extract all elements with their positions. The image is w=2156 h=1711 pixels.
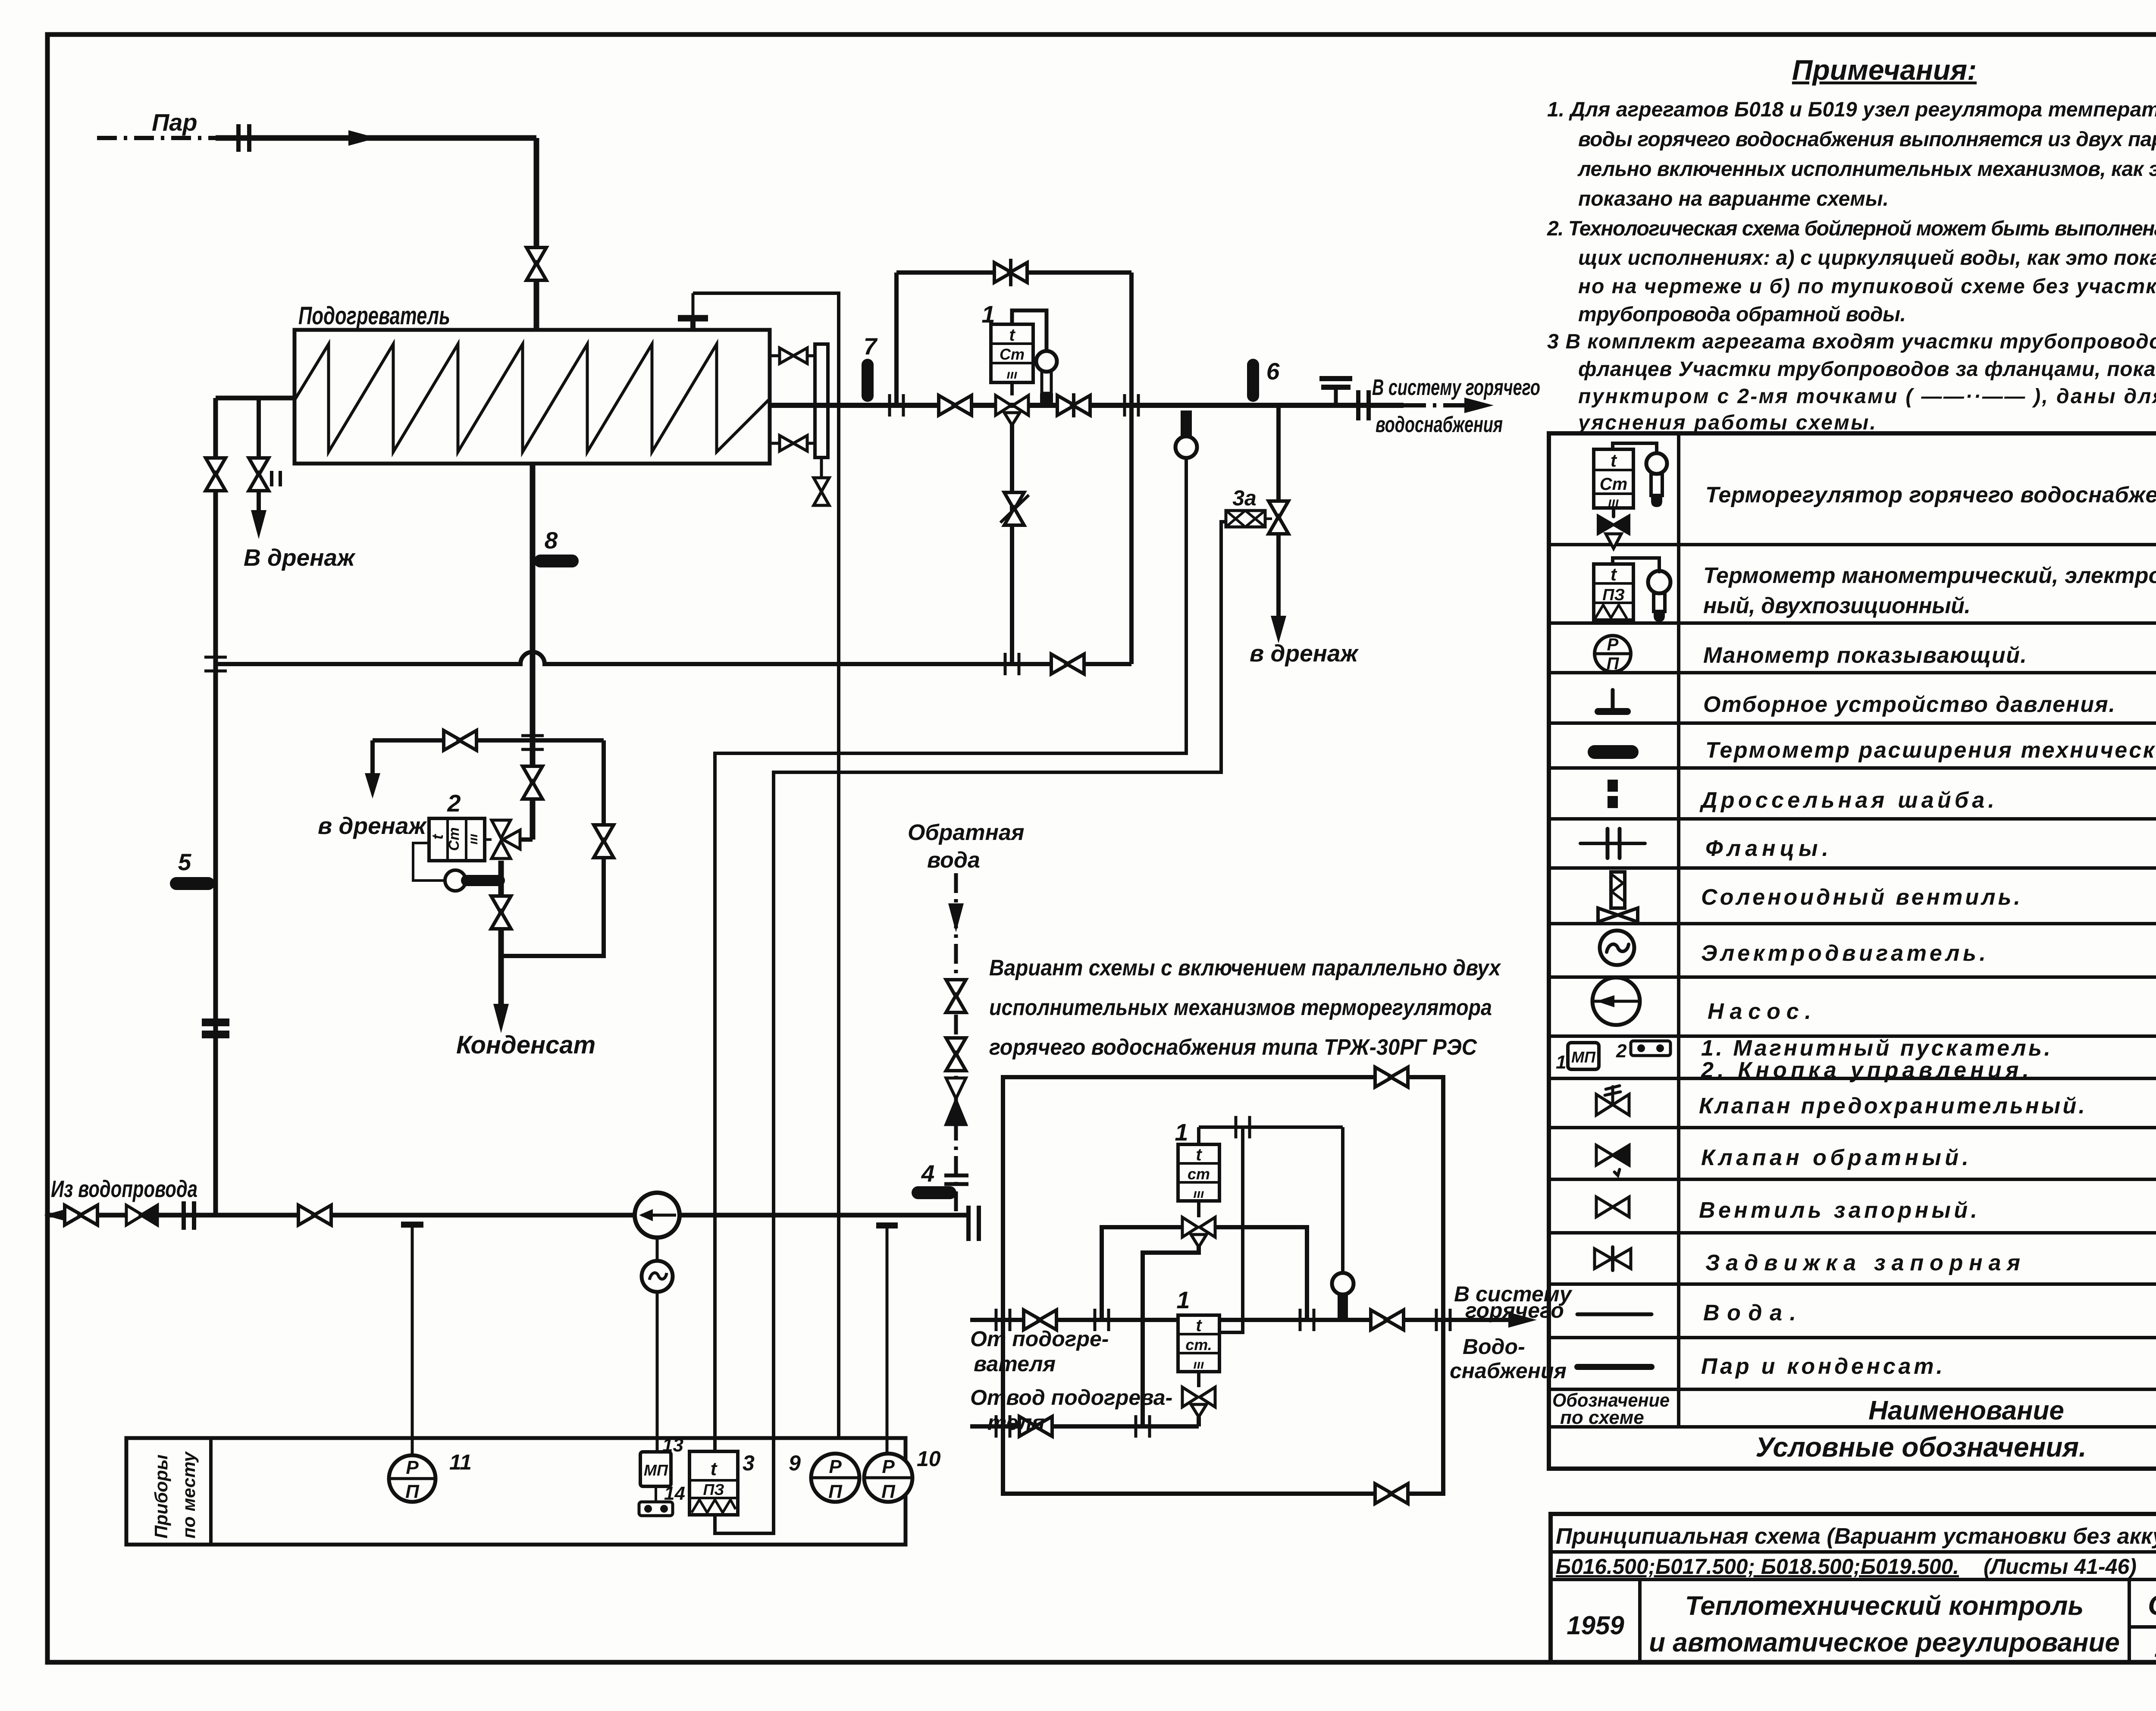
bottom cold water line bbox=[46, 1213, 970, 1218]
condensate elbow to regulating valve bbox=[519, 837, 533, 842]
svg-text:3а: 3а bbox=[1232, 486, 1257, 510]
svg-text:Клапан обратный.: Клапан обратный. bbox=[1701, 1145, 1968, 1170]
svg-text:вода: вода bbox=[927, 848, 980, 873]
svg-text:ный, двухпозиционный.: ный, двухпозиционный. bbox=[1703, 593, 1971, 618]
legend sym row1: thermoregulator bbox=[1594, 443, 1667, 548]
variant inflow pipe bbox=[970, 1318, 1509, 1322]
regulator 1 three-way valve bbox=[996, 395, 1028, 425]
bypass left leg bbox=[894, 273, 899, 405]
svg-text:(Листы 41-46): (Листы 41-46) bbox=[1984, 1554, 2137, 1579]
svg-text:t: t bbox=[1196, 1145, 1202, 1164]
svg-text:1: 1 bbox=[981, 301, 995, 328]
steam supply dash-dot pipe bbox=[97, 136, 216, 140]
svg-text:теля: теля bbox=[987, 1410, 1045, 1435]
drain arrow bbox=[1271, 616, 1286, 643]
svg-text:ııı: ııı bbox=[1006, 367, 1017, 382]
capillary to instrument 3 bbox=[715, 458, 1186, 1451]
thermometer instrument 3 bbox=[689, 1451, 755, 1515]
svg-text:t: t bbox=[1611, 564, 1617, 584]
legend sym row2: manometric thermometer bbox=[1594, 558, 1670, 622]
svg-text:4: 4 bbox=[921, 1160, 935, 1187]
svg-text:горячего: горячего bbox=[1465, 1298, 1564, 1322]
svg-text:1: 1 bbox=[1556, 1052, 1566, 1073]
bottom line end flange bbox=[968, 1206, 979, 1241]
svg-text:П: П bbox=[405, 1481, 420, 1502]
water inlet arrow bbox=[44, 1207, 72, 1223]
condensate flanges at branch bbox=[521, 736, 544, 749]
svg-text:Вентиль запорный.: Вентиль запорный. bbox=[1699, 1198, 1977, 1223]
svg-text:14: 14 bbox=[664, 1483, 685, 1504]
steam downpipe bbox=[534, 138, 539, 330]
svg-text:Вода.: Вода. bbox=[1703, 1300, 1796, 1326]
legend row lines bbox=[1549, 545, 2156, 1427]
instrument panel box bbox=[126, 1438, 906, 1545]
legend sym row14: shut-off valve bbox=[1596, 1197, 1629, 1217]
steam pipe flange bbox=[238, 124, 249, 152]
return water riser dash-dot bbox=[954, 873, 958, 1215]
svg-text:горячего водоснабжения типа ТР: горячего водоснабжения типа ТРЖ-30РГ РЭС bbox=[989, 1035, 1477, 1060]
svg-text:Термометр расширения техниче: Термометр расширения технический. bbox=[1705, 738, 2156, 763]
notes text block bbox=[1547, 98, 2156, 434]
svg-text:ПЗ: ПЗ bbox=[1602, 586, 1625, 604]
lower three-way valve bbox=[1182, 1387, 1215, 1417]
condensate bypass right leg bbox=[501, 740, 604, 956]
heater bypass pipe bbox=[970, 1424, 1199, 1429]
bypass right leg bbox=[1129, 273, 1134, 664]
svg-text:Р: Р bbox=[882, 1456, 895, 1477]
mixing tee ticks bbox=[1005, 653, 1019, 675]
svg-text:10: 10 bbox=[917, 1447, 941, 1471]
riser to three-way valve bbox=[1010, 424, 1014, 664]
heater inlet pipe bbox=[216, 396, 295, 401]
legend sym row13: check valve bbox=[1596, 1145, 1629, 1175]
heater drain branch bbox=[257, 398, 261, 458]
condensate valve above regulator bbox=[523, 766, 542, 799]
svg-text:ст.: ст. bbox=[1185, 1336, 1212, 1354]
svg-text:Терморегулятор горячего водосн: Терморегулятор горячего водоснабжения. bbox=[1705, 483, 2156, 508]
condensate outlet valve bbox=[491, 896, 511, 929]
svg-text:Обратная: Обратная bbox=[908, 820, 1025, 845]
hot water outlet dash-dot arrow bbox=[1404, 403, 1466, 407]
orifice plate bbox=[202, 1018, 229, 1038]
capillary from 3a to instrument 3 bbox=[715, 522, 1226, 1533]
svg-text:t: t bbox=[1196, 1316, 1202, 1335]
svg-text:Термометр манометрический, эл: Термометр манометрический, электроконтак… bbox=[1703, 563, 2156, 588]
regulator 2 box bbox=[429, 818, 492, 861]
svg-text:Подогреватель: Подогреватель bbox=[298, 302, 450, 330]
svg-text:Теплотехнический контроль: Теплотехнический контроль bbox=[1685, 1591, 2084, 1621]
drain branch pipe bbox=[373, 738, 604, 743]
return riser valve 2 bbox=[946, 1038, 966, 1071]
cold line valve bbox=[1051, 654, 1084, 674]
svg-text:МП: МП bbox=[644, 1461, 668, 1479]
svg-text:Задвижка запорная: Задвижка запорная bbox=[1705, 1250, 2020, 1275]
legend sym row3: manometer bbox=[1595, 635, 1631, 673]
condensate arrow bbox=[493, 1004, 509, 1033]
svg-text:Вариант схемы с включением пар: Вариант схемы с включением параллельно д… bbox=[989, 956, 1501, 981]
regulator 1 bulb bbox=[1036, 351, 1057, 372]
svg-text:8: 8 bbox=[545, 527, 558, 554]
svg-text:Из водопровода: Из водопровода bbox=[51, 1175, 197, 1202]
svg-text:ııı: ııı bbox=[1193, 1187, 1204, 1201]
upper valve outlet pipe bbox=[1215, 1227, 1307, 1320]
manometer 11 bbox=[389, 1450, 472, 1502]
svg-text:и автоматическое регулирование: и автоматическое регулирование bbox=[1649, 1628, 2120, 1658]
svg-text:щих исполнениях: а) с циркуля: щих исполнениях: а) с циркуляцией воды, … bbox=[1578, 247, 2156, 269]
heater coil bbox=[295, 344, 770, 452]
svg-text:Приборы: Приборы bbox=[151, 1454, 171, 1539]
svg-text:Отвод подогрева-: Отвод подогрева- bbox=[970, 1385, 1172, 1410]
steam flow arrow bbox=[348, 130, 377, 146]
regulator 2 capillary and bulb bbox=[413, 843, 445, 881]
svg-text:2. Технологическая схема бойле: 2. Технологическая схема бойлерной может… bbox=[1547, 217, 2156, 240]
svg-text:1. Для агрегатов Б018 и Б019: 1. Для агрегатов Б018 и Б019 узел регуля… bbox=[1547, 98, 2156, 121]
legend table bbox=[1549, 433, 2156, 1469]
svg-text:в дренаж: в дренаж bbox=[318, 812, 427, 839]
svg-text:ОВ-03-31: ОВ-03-31 bbox=[2148, 1589, 2156, 1621]
svg-text:П: П bbox=[828, 1481, 843, 1502]
svg-text:3 В комплект агрегата входят: 3 В комплект агрегата входят участки тру… bbox=[1547, 330, 2156, 353]
heater pressure tap bbox=[678, 293, 708, 330]
svg-text:5: 5 bbox=[178, 849, 192, 875]
variant tee ticks bbox=[1095, 1309, 1109, 1331]
upper regulator top link bbox=[1197, 1127, 1200, 1144]
svg-text:2: 2 bbox=[447, 790, 461, 817]
regulator 1 bulb link bbox=[1012, 310, 1047, 350]
magnetic starter 13 bbox=[640, 1435, 683, 1486]
condensate bypass valve bbox=[594, 825, 614, 858]
svg-text:Конденсат: Конденсат bbox=[456, 1031, 595, 1059]
svg-text:Условные обозначения.: Условные обозначения. bbox=[1755, 1432, 2087, 1463]
variant capillary top line bbox=[1199, 1125, 1343, 1129]
bypass crossing ticks bbox=[1125, 394, 1138, 417]
variant bulb drop bbox=[1341, 1127, 1344, 1273]
svg-text:лельно включенных исполнитель: лельно включенных исполнительных механиз… bbox=[1577, 158, 2156, 181]
cold water riser bbox=[213, 398, 218, 1215]
inlet check valve bbox=[126, 1205, 157, 1225]
svg-text:трубопровода обратной воды.: трубопровода обратной воды. bbox=[1578, 303, 1906, 326]
lower box to top line leg bbox=[1219, 1127, 1243, 1332]
manometer 10 bbox=[864, 1447, 941, 1502]
variant outlet arrow bbox=[1508, 1312, 1537, 1328]
thermometer 6 bbox=[1247, 359, 1259, 402]
legend sym row12: safety valve bbox=[1596, 1086, 1629, 1115]
bypass top pipe bbox=[896, 270, 1131, 275]
variant circulation loop bbox=[1003, 1077, 1443, 1494]
return riser valve 1 bbox=[946, 980, 966, 1012]
condensate pipe from heater bbox=[530, 464, 536, 840]
svg-text:уяснения работы схемы.: уяснения работы схемы. bbox=[1577, 411, 1876, 434]
svg-text:9: 9 bbox=[789, 1451, 801, 1475]
svg-text:Клапан предохранительный.: Клапан предохранительный. bbox=[1699, 1094, 2085, 1119]
svg-text:Принципиальная схема (Вариант: Принципиальная схема (Вариант установки … bbox=[1556, 1524, 2156, 1549]
svg-text:Пар и конденсат.: Пар и конденсат. bbox=[1701, 1354, 1943, 1379]
pressure tap to manometer 10 bbox=[876, 1225, 898, 1454]
steam valve bbox=[526, 248, 546, 280]
upper branch pipe bbox=[1102, 1227, 1182, 1320]
steam pipe bbox=[216, 135, 536, 141]
legend column divider bbox=[1677, 433, 1680, 1427]
solenoid 3a device bbox=[1226, 511, 1272, 527]
svg-text:П: П bbox=[881, 1481, 896, 1502]
legend outer box bbox=[1549, 433, 2156, 1469]
regulator 1 box bbox=[991, 324, 1033, 395]
svg-text:Водо-: Водо- bbox=[1463, 1335, 1525, 1359]
upper regulator box bbox=[1178, 1144, 1219, 1217]
title block bbox=[1551, 1514, 2156, 1662]
sensor bulb for thermometer 3 bbox=[1181, 411, 1192, 436]
bypass valve bbox=[994, 263, 1027, 282]
svg-text:t: t bbox=[1611, 450, 1617, 470]
legend sym row11: starter + button bbox=[1556, 1040, 1670, 1073]
svg-text:Пар: Пар bbox=[152, 109, 197, 136]
legend sym row17: steam line bbox=[1577, 1364, 1651, 1370]
legend sym row9: electric motor bbox=[1600, 931, 1634, 965]
legend sym row4: pressure tap bbox=[1598, 690, 1627, 711]
legend sym row6: orifice plate bbox=[1608, 780, 1618, 808]
sight glass lower valve bbox=[770, 442, 815, 445]
hot line valve 2 bbox=[1057, 395, 1090, 415]
svg-text:исполнительных механизмов терм: исполнительных механизмов терморегулятор… bbox=[989, 995, 1492, 1020]
svg-text:ııı: ııı bbox=[466, 834, 480, 844]
variant loop bottom valve bbox=[1375, 1484, 1408, 1504]
thermometer 4 bbox=[912, 1186, 956, 1199]
svg-text:1959: 1959 bbox=[1567, 1611, 1624, 1640]
svg-text:Соленоидный вентиль.: Соленоидный вентиль. bbox=[1701, 885, 2020, 910]
svg-text:Р: Р bbox=[829, 1456, 842, 1477]
svg-text:t: t bbox=[429, 834, 446, 840]
pump motor bbox=[656, 1238, 659, 1264]
return riser flange bbox=[944, 1175, 968, 1184]
riser junction ticks bbox=[204, 657, 227, 671]
svg-text:2: 2 bbox=[1616, 1040, 1627, 1062]
svg-text:ст: ст bbox=[1188, 1165, 1210, 1183]
svg-text:вателя: вателя bbox=[974, 1352, 1056, 1376]
svg-text:1: 1 bbox=[1176, 1286, 1190, 1313]
sight glass bbox=[815, 344, 828, 458]
legend sym row10: pump bbox=[1592, 978, 1640, 1025]
svg-text:1: 1 bbox=[1175, 1119, 1188, 1146]
bottom line valve bbox=[298, 1205, 331, 1225]
drain branch downpipe and arrow bbox=[370, 740, 375, 776]
svg-text:снабжения: снабжения bbox=[1450, 1359, 1567, 1383]
hot line outlet flange bbox=[1358, 390, 1369, 420]
legend sym row8: solenoid valve bbox=[1598, 872, 1638, 922]
svg-text:МП: МП bbox=[1571, 1048, 1596, 1066]
svg-text:воды горячего водоснабжения в: воды горячего водоснабжения выполняется … bbox=[1578, 128, 2156, 151]
junction ticks at bypass left bbox=[890, 394, 903, 417]
svg-text:7: 7 bbox=[864, 333, 878, 360]
svg-text:Cт: Cт bbox=[1000, 345, 1025, 363]
svg-text:3: 3 bbox=[743, 1451, 755, 1475]
variant loop top valve bbox=[1375, 1067, 1408, 1087]
svg-text:ııı: ııı bbox=[1193, 1357, 1204, 1372]
variant outlet valve bbox=[1371, 1310, 1404, 1330]
capillary to manometer 9 bbox=[693, 293, 839, 1438]
svg-text:Примечания:: Примечания: bbox=[1792, 54, 1977, 86]
svg-text:водоснабжения: водоснабжения bbox=[1376, 412, 1503, 437]
sight glass drain valve bbox=[820, 458, 823, 478]
hot line pressure tap bbox=[1319, 379, 1352, 405]
inlet gate valve bbox=[65, 1205, 97, 1225]
inlet flange bbox=[184, 1201, 194, 1230]
hot line drain pipe bbox=[1276, 405, 1281, 617]
svg-text:по месту: по месту bbox=[179, 1451, 199, 1539]
thermometer 7 bbox=[862, 359, 874, 402]
riser valve with handle bbox=[1004, 492, 1024, 525]
thermometer 8 bbox=[534, 555, 579, 567]
svg-text:Б016.500;Б017.500; Б018.500;Б0: Б016.500;Б017.500; Б018.500;Б019.500. bbox=[1556, 1554, 1959, 1579]
svg-text:t: t bbox=[1009, 326, 1015, 345]
upper valve third port leg bbox=[1143, 1246, 1199, 1426]
svg-text:показано на варианте схемы.: показано на варианте схемы. bbox=[1578, 188, 1889, 210]
svg-text:Cт: Cт bbox=[446, 827, 462, 851]
lower regulator box bbox=[1178, 1315, 1219, 1387]
svg-text:Р: Р bbox=[1607, 635, 1619, 654]
drain branch valve bbox=[444, 730, 476, 750]
svg-text:Наименование: Наименование bbox=[1868, 1396, 2064, 1426]
svg-text:Cт: Cт bbox=[1600, 475, 1627, 494]
svg-text:11: 11 bbox=[449, 1450, 472, 1474]
upper three-way valve bbox=[1182, 1217, 1215, 1247]
sight glass upper valve bbox=[770, 354, 815, 357]
cold water line to mixing valve (with hop) bbox=[216, 652, 1131, 664]
svg-text:6: 6 bbox=[1266, 358, 1280, 385]
svg-text:Насос.: Насос. bbox=[1708, 999, 1811, 1024]
variant inflow valve bbox=[1024, 1310, 1056, 1330]
legend sym row7: flanges bbox=[1580, 829, 1645, 858]
svg-text:ПЗ: ПЗ bbox=[703, 1481, 724, 1498]
svg-text:Отборное устройство давления: Отборное устройство давления. bbox=[1703, 692, 2115, 717]
condensate outlet pipe bbox=[498, 861, 504, 1006]
return flow arrow bbox=[948, 903, 964, 932]
lower valve to bypass pipe bbox=[1197, 1417, 1201, 1426]
pressure tap to manometer 11 bbox=[401, 1225, 423, 1455]
hot water main line bbox=[770, 403, 1404, 408]
motor to starter line bbox=[656, 1290, 659, 1452]
svg-text:Р: Р bbox=[406, 1457, 419, 1478]
legend sym row15: gate valve bbox=[1595, 1247, 1631, 1270]
pump bbox=[635, 1193, 680, 1238]
svg-text:Дроссельная шайба.: Дроссельная шайба. bbox=[1699, 788, 1994, 813]
heater shell bbox=[295, 330, 770, 464]
legend sym row5: expansion thermometer bbox=[1588, 745, 1639, 759]
control button 14 bbox=[639, 1483, 685, 1516]
svg-text:в дренаж: в дренаж bbox=[1250, 640, 1359, 667]
return riser check valve bbox=[946, 1078, 966, 1125]
inflow ticks at loop edge bbox=[996, 1309, 1010, 1331]
svg-text:13: 13 bbox=[662, 1435, 683, 1456]
svg-text:П: П bbox=[1607, 654, 1620, 673]
manometer 9 bbox=[789, 1451, 859, 1502]
solenoid drain valve bbox=[1269, 501, 1288, 534]
svg-text:по схеме: по схеме bbox=[1560, 1407, 1644, 1428]
legend sym row16: water line bbox=[1577, 1313, 1651, 1316]
svg-text:В систему горячего: В систему горячего bbox=[1372, 375, 1540, 400]
svg-text:t: t bbox=[711, 1458, 718, 1479]
svg-text:В дренаж: В дренаж bbox=[244, 544, 356, 571]
svg-text:фланцев Участки трубопроводов: фланцев Участки трубопроводов за фланцам… bbox=[1578, 358, 2156, 381]
riser valve bbox=[206, 458, 226, 491]
hot line valve 1 bbox=[939, 395, 971, 415]
thermometer 5 bbox=[170, 877, 215, 890]
legend row texts bbox=[1699, 483, 2156, 1379]
svg-text:От подогре-: От подогре- bbox=[970, 1327, 1109, 1351]
regulator 2 three-way valve bbox=[492, 820, 520, 859]
